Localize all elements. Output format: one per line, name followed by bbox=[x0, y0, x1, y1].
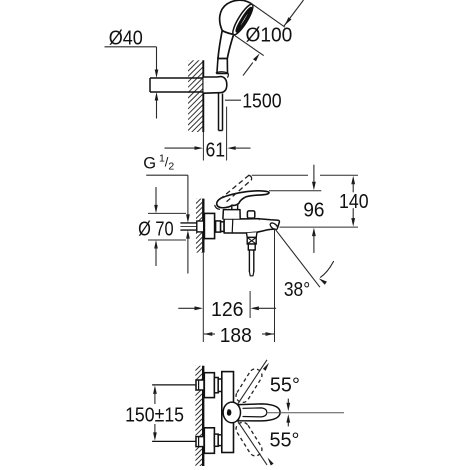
dimension 61 (extension lines, arrows, label) bbox=[202, 132, 204, 161]
spout tip with aerator bbox=[259, 219, 280, 230]
dimension 126 (arrows and label) bbox=[178, 307, 195, 309]
svg-text:Ø100: Ø100 bbox=[246, 25, 293, 47]
mounting plate / body (plan) bbox=[222, 372, 234, 453]
hand shower hose (middle view) bbox=[249, 250, 253, 272]
dimension 188 (arrows and label) bbox=[204, 332, 213, 336]
pivot circle (plan) bbox=[223, 402, 240, 423]
extension line from spout tip bbox=[274, 230, 276, 342]
svg-text:96: 96 bbox=[303, 200, 324, 222]
raised lever (dashed position) bbox=[220, 175, 249, 199]
dimension 96 (arrows and label) bbox=[313, 165, 315, 184]
svg-text:38°: 38° bbox=[284, 279, 310, 301]
pipe hex nut in wall bbox=[197, 221, 204, 232]
hand shower head body bbox=[220, 0, 252, 34]
diverter square with cross bbox=[247, 237, 256, 244]
extension line hose axis bbox=[249, 291, 251, 318]
lower supply pipe (plan) bbox=[152, 440, 196, 442]
55deg dimension arrows at centreline bbox=[287, 399, 289, 405]
55deg rays through dashed levers bbox=[238, 360, 268, 405]
hose connector below diverter bbox=[248, 244, 255, 250]
dimension 1500 leader and label bbox=[225, 99, 241, 101]
temperature knob (small square) bbox=[247, 211, 254, 218]
lower S-union nuts (plan) bbox=[214, 434, 218, 446]
lever handle (middle view, closed position) bbox=[217, 191, 269, 208]
pipe centreline bbox=[180, 226, 272, 228]
dimension 38 deg (leader, arc, label) bbox=[275, 228, 320, 287]
svg-text:1500: 1500 bbox=[242, 90, 281, 112]
dimension Ø100 (extension lines, arrows, label) bbox=[250, 3, 285, 28]
svg-text:188: 188 bbox=[220, 325, 252, 347]
reference line 96 top (lever height) bbox=[269, 190, 321, 192]
svg-text:Ø 70: Ø 70 bbox=[138, 218, 174, 240]
shower hose (top view) bbox=[218, 94, 220, 131]
cartridge cap bbox=[223, 210, 240, 219]
svg-text:55°: 55° bbox=[270, 375, 300, 397]
wall edge line (middle view) bbox=[202, 199, 204, 253]
lower escutcheon (plan) bbox=[204, 428, 214, 454]
arrowhead on lower 55deg ray bbox=[268, 458, 274, 466]
centreline of lever (plan) bbox=[266, 412, 344, 414]
svg-text:126: 126 bbox=[211, 299, 244, 321]
dimension Ø70 (arrows, extension lines, label) bbox=[155, 187, 157, 207]
body seam line bbox=[231, 219, 234, 233]
upper dashed lever (raised 55deg) bbox=[234, 367, 265, 405]
lever handle (plan view) bbox=[239, 404, 281, 421]
dimension 140 (arrows and label) bbox=[351, 176, 355, 185]
dimension 150 +/- 15 (arrows and label) bbox=[153, 385, 157, 394]
shower head face (spray plate) bbox=[230, 2, 256, 37]
reference line spout outlet level bbox=[280, 226, 359, 228]
pivot keyhole mark bbox=[227, 410, 231, 415]
body wedge to pivot bbox=[226, 402, 234, 423]
S-union nuts (middle view) bbox=[216, 221, 221, 232]
svg-text:150±15: 150±15 bbox=[125, 405, 184, 427]
pivot lower arc bbox=[215, 205, 220, 209]
svg-text:61: 61 bbox=[206, 140, 226, 162]
upper S-union nuts (plan) bbox=[214, 378, 218, 393]
lower wall nut (plan) bbox=[196, 437, 204, 447]
wall edge line (top view) bbox=[202, 60, 204, 132]
hand shower handle bbox=[218, 31, 234, 59]
upper supply pipe (plan) bbox=[152, 384, 196, 386]
svg-text:140: 140 bbox=[339, 191, 369, 213]
reference line 140 top (raised lever height) bbox=[252, 174, 308, 176]
holder bar (wall bracket arm) bbox=[150, 77, 203, 79]
shower holder head (right of wall) bbox=[204, 77, 227, 94]
supply pipe stub in wall bbox=[180, 222, 203, 224]
wall escutcheon (middle view) bbox=[204, 213, 214, 238]
diverter connection under body bbox=[247, 232, 258, 237]
upper wall nut (plan) bbox=[196, 380, 204, 390]
arrowhead on upper 55deg ray bbox=[263, 363, 269, 371]
extension line wall (below middle view) bbox=[202, 253, 204, 342]
mixer body barrel bbox=[224, 219, 273, 233]
upper escutcheon (plan) bbox=[204, 373, 214, 398]
G 1/2 leader and dimension arrows bbox=[146, 174, 188, 176]
svg-text:55°: 55° bbox=[270, 430, 300, 452]
lever neck bbox=[232, 205, 238, 210]
lower dashed lever (55deg down) bbox=[234, 420, 265, 458]
hand shower grip bbox=[217, 58, 228, 74]
wall edge line (bottom view) bbox=[202, 366, 204, 466]
